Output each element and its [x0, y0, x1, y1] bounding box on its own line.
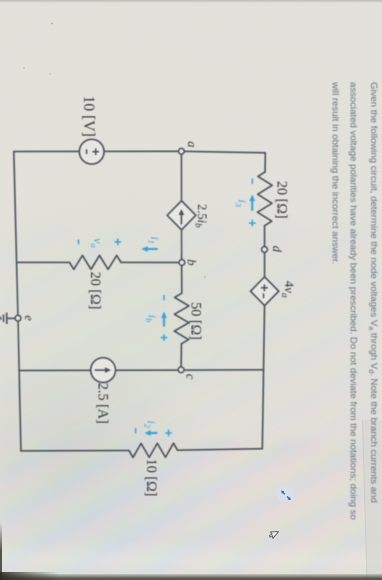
2.5ib diamond arrow: [180, 213, 182, 225]
ground symbol at node e: [1, 313, 15, 324]
node d circle: [262, 247, 268, 253]
mouse cursor: [269, 531, 280, 540]
4va polarity minus: [263, 293, 265, 298]
cyan annotation i3: [249, 179, 256, 227]
expand icon button: [278, 487, 294, 502]
expand icon arrows: [281, 490, 291, 500]
I1 2.5A arrow: [95, 209, 184, 373]
cyan annotation i2: [136, 428, 172, 436]
wire top rail diamond to top-right corner: [262, 306, 264, 449]
resistor R 50ohm zigzag: [174, 293, 189, 344]
wire branch c down: [19, 369, 264, 372]
wire left edge: [14, 151, 266, 153]
dependent current source 2.5ib diamond: [167, 201, 196, 230]
cyan annotation va plus: [79, 239, 122, 246]
node c circle: [178, 367, 184, 373]
cyan annotation ib: [161, 295, 168, 341]
wire right edge upper: [178, 449, 263, 451]
cyan annotation i1 arrow: [141, 246, 157, 252]
dependent voltage source 4va diamond: [251, 277, 279, 306]
voltage source V1 10V circle: [79, 139, 278, 382]
wire top rail between 20ohm and node d: [264, 226, 266, 277]
wire bottom rail: [14, 152, 21, 451]
cyan annotation va minus: [78, 240, 80, 245]
resistor R 20ohm left-branch zigzag: [70, 255, 122, 269]
node b circle: [179, 260, 185, 266]
4va polarity plus: [261, 284, 268, 291]
wire mid rail 50ohm to junction right: [180, 344, 182, 370]
node a circle: [15, 148, 267, 372]
V1 polarity minus: [86, 149, 88, 154]
wire mid rail diamond to 50ohm: [181, 230, 183, 293]
resistor R 10ohm zigzag: [129, 443, 178, 457]
resistor R 20ohm top zigzag: [258, 172, 273, 226]
wire mid rail a to diamond: [180, 151, 182, 200]
wire branch b lower: [17, 261, 70, 263]
V1 polarity plus: [87, 148, 268, 298]
wire branch b down: [121, 261, 182, 263]
wire top rail left stub: [264, 153, 266, 172]
node e circle: [15, 315, 21, 321]
current source I1 2.5A circle: [91, 358, 116, 383]
wire right edge lower: [21, 450, 129, 452]
